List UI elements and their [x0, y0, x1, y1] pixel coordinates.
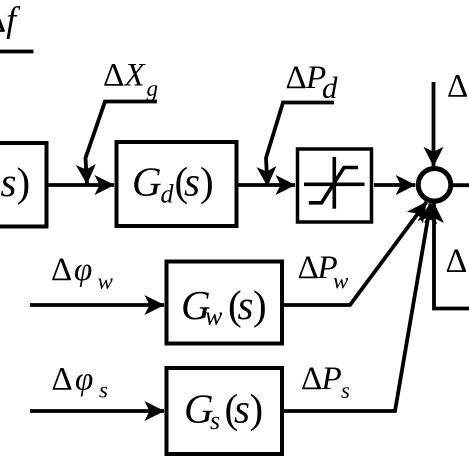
wire feedback from right edge up into summing junction bottom: [434, 204, 469, 309]
wire from Gs(s) to summing junction: [284, 204, 431, 412]
svg-text:Δ: Δ: [447, 69, 468, 105]
block saturation limiter: [298, 149, 372, 222]
wire summing junction output to right edge: [452, 183, 469, 187]
summing junction: [418, 169, 451, 202]
svg-text:(s): (s): [0, 159, 30, 205]
wire solar input arrow into Gs(s): [30, 409, 164, 413]
wire from Gd(s) to saturation block: [238, 183, 295, 187]
wire leader arrow from ΔPd to wire: [266, 103, 334, 187]
svg-text:Δ: Δ: [446, 243, 468, 280]
block Gd(s): [117, 142, 237, 226]
block Gw(s): [167, 262, 283, 344]
block controller (cut at left edge) value (s): [0, 143, 47, 227]
svg-text:Gs(s): Gs(s): [184, 386, 263, 436]
wire from saturation block to summing junction: [374, 183, 415, 187]
wire load disturbance arrow into summing junction from top: [432, 82, 436, 166]
saturation symbol limiter curve: [309, 168, 358, 203]
saturation symbol vertical axis: [332, 157, 336, 209]
wire wind input arrow into Gw(s): [30, 303, 164, 307]
wire leader line under Δf: [0, 50, 34, 54]
block Gs(s): [167, 368, 283, 454]
wire from controller block to Gd(s): [48, 183, 114, 187]
wire leader arrow from ΔXg to governor wire: [86, 102, 158, 185]
wire from Gw(s) to summing junction: [284, 202, 427, 305]
saturation symbol horizontal axis: [304, 183, 365, 187]
